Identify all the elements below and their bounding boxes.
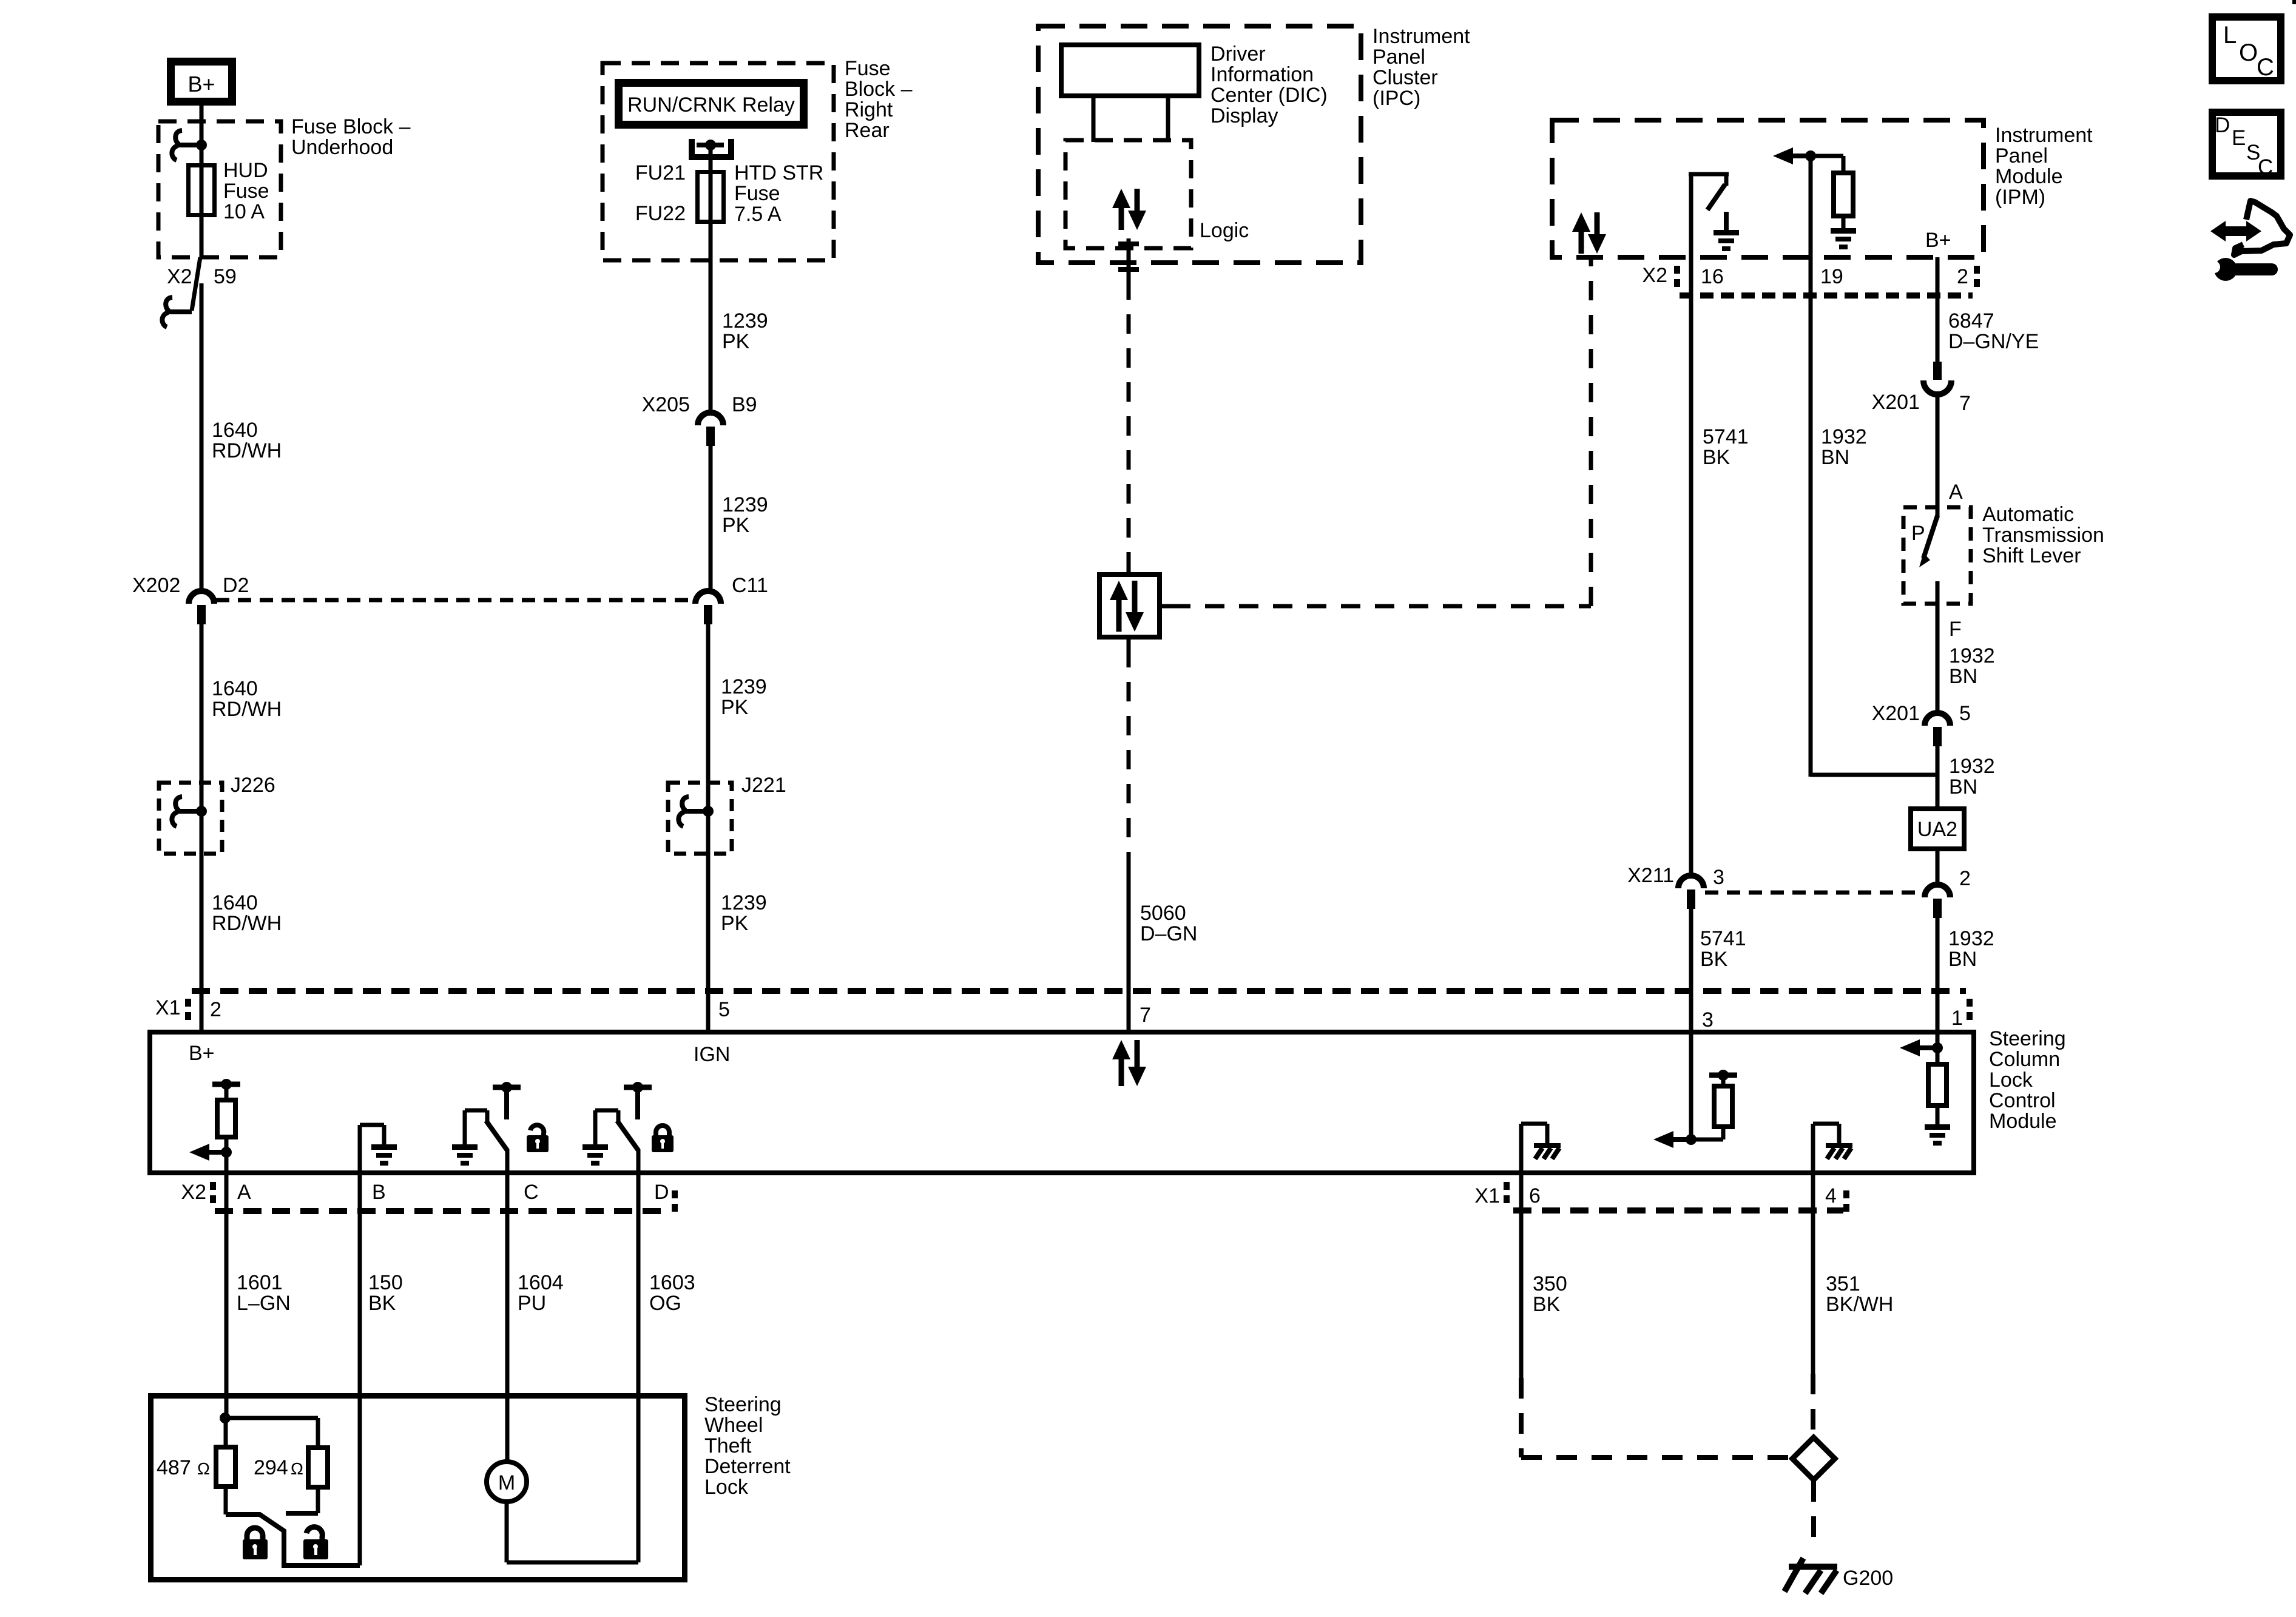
label circuit 350 BK	[1533, 1272, 1567, 1316]
wire 1601 L-GN module to lock	[225, 1172, 229, 1420]
label pin 7	[1140, 1004, 1151, 1027]
wire X201-5 to UA2	[1936, 745, 1940, 809]
svg-text:Rear: Rear	[845, 119, 890, 142]
label 294 ohm	[254, 1456, 303, 1479]
svg-text:PK: PK	[721, 696, 749, 719]
svg-text:P: P	[1911, 522, 1925, 545]
motor M	[487, 1462, 527, 1502]
svg-text:5741: 5741	[1700, 927, 1746, 950]
separator dots after IPM pin 2	[1974, 266, 1980, 287]
module X1 connector dashed row	[192, 988, 1966, 994]
svg-text:PK: PK	[722, 330, 750, 353]
lock switch open contact	[286, 1511, 318, 1516]
closed padlock icon at pin D switch	[652, 1126, 674, 1152]
separator dots X1 left	[185, 999, 191, 1020]
svg-text:19: 19	[1820, 265, 1843, 288]
resistor 294 ohm	[308, 1448, 328, 1513]
label FU21 FU22	[635, 161, 686, 225]
option code UA2 box	[1911, 809, 1964, 849]
tick bar at IPC box exit	[1118, 267, 1139, 272]
wire 1932 BN horizontal to X201-5 output	[1811, 772, 1937, 777]
jump icon wrench	[2207, 258, 2278, 281]
wire 5741 BK IPM-16 to X211	[1689, 257, 1693, 873]
svg-text:1239: 1239	[722, 309, 768, 333]
label J221	[741, 774, 786, 797]
wire motor to 1603 OG	[507, 1502, 638, 1562]
label terminal A	[1949, 481, 1963, 504]
DIC display box	[1061, 45, 1199, 96]
svg-text:Module: Module	[1995, 165, 2063, 188]
svg-text:C: C	[2258, 155, 2273, 179]
junction dot lock resistors	[220, 1413, 231, 1423]
svg-text:X205: X205	[642, 393, 690, 416]
shift lever switch stub	[1936, 507, 1940, 518]
tick bar at logic box exit	[1118, 241, 1139, 246]
svg-text:E: E	[2232, 126, 2246, 150]
svg-text:59: 59	[214, 265, 237, 288]
svg-text:X202: X202	[132, 574, 180, 597]
wire junction to IPM resistor	[1811, 156, 1843, 173]
page corner mark	[2292, 0, 2296, 4]
label Logic	[1200, 219, 1249, 242]
lock switch blade and common	[226, 1514, 360, 1565]
svg-text:1932: 1932	[1948, 927, 1994, 950]
label X2 59	[167, 265, 237, 288]
svg-text:BN: BN	[1949, 775, 1977, 798]
svg-text:Lock: Lock	[704, 1476, 749, 1499]
svg-text:Instrument: Instrument	[1373, 25, 1470, 48]
svg-text:6: 6	[1529, 1184, 1541, 1207]
svg-text:BN: BN	[1948, 948, 1977, 971]
svg-text:1239: 1239	[721, 891, 767, 914]
junction dot pin 1	[1932, 1042, 1943, 1053]
switch blade in IPM	[1707, 184, 1725, 210]
label circuit 1604 PU	[518, 1271, 564, 1315]
wire junction to 294 resistor	[225, 1418, 318, 1448]
label Driver Information Center DIC Display	[1210, 42, 1328, 127]
shift lever lower stub	[1936, 581, 1940, 604]
svg-text:J221: J221	[741, 774, 786, 797]
jump icon hand outline	[2234, 201, 2290, 255]
svg-text:7: 7	[1959, 392, 1971, 415]
fuse HTD STR Fuse 7.5 A	[698, 172, 724, 222]
stub below logic box	[1127, 238, 1131, 280]
svg-text:M: M	[498, 1471, 515, 1494]
label Instrument Panel Module IPM	[1995, 124, 2093, 209]
svg-text:HUD: HUD	[223, 159, 268, 182]
label X201 7	[1872, 391, 1971, 415]
arrow to other circuits pin 1	[1900, 1039, 1937, 1056]
label 487 ohm	[157, 1456, 210, 1479]
svg-text:Steering: Steering	[1989, 1027, 2066, 1050]
svg-text:Control: Control	[1989, 1089, 2056, 1112]
svg-text:1932: 1932	[1949, 755, 1995, 778]
in-line connector X205 pin B9	[698, 413, 723, 446]
label HTD STR Fuse 7.5 A	[734, 161, 823, 226]
module pin D switch blade	[617, 1121, 638, 1150]
svg-text:D2: D2	[223, 574, 249, 597]
svg-text:IGN: IGN	[694, 1043, 730, 1066]
svg-text:1: 1	[1951, 1007, 1963, 1030]
svg-text:3: 3	[1702, 1008, 1714, 1031]
earth ground module pin 1	[1925, 1124, 1950, 1146]
svg-text:1601: 1601	[237, 1271, 283, 1294]
connector X2 pin 59 jog	[192, 257, 200, 311]
svg-text:Underhood: Underhood	[291, 136, 393, 159]
svg-text:3: 3	[1713, 866, 1724, 889]
label connector pin 2	[1959, 867, 1971, 890]
dashed serial data line below gateway	[1127, 648, 1131, 862]
wire IPM pin 16 internal	[1689, 174, 1729, 257]
label pin 3	[1702, 1008, 1714, 1031]
label Fuse Block Underhood	[291, 115, 411, 159]
svg-text:Fuse: Fuse	[734, 182, 780, 205]
module pin 3 internal resistor	[1691, 1075, 1732, 1139]
wire 1640 RD/WH X2-59 to X202	[200, 283, 204, 589]
wire 150 BK module to lock	[358, 1172, 362, 1565]
svg-text:G200: G200	[1843, 1567, 1893, 1590]
bus tap hook at HUD fuse feed	[172, 130, 201, 160]
wire 1932 BN to module pin X1-1	[1936, 917, 1940, 1034]
instrument panel module IPM dashed box	[1552, 120, 1984, 257]
dashed wire 351 BK/WH to splice	[1811, 1374, 1815, 1434]
label HUD Fuse 10 A	[223, 159, 269, 223]
dashed connector jumper D2 to C11	[216, 598, 695, 603]
label circuit 5060 D-GN	[1140, 902, 1197, 945]
power feed B+ box (battery positive)	[171, 62, 232, 102]
svg-text:BN: BN	[1949, 665, 1977, 688]
module pin C switch frame	[465, 1110, 487, 1144]
wire 1604 PU module to motor	[505, 1172, 510, 1462]
label circuit 1932 BN	[1948, 927, 1994, 971]
chassis ground module pin 4	[1826, 1143, 1852, 1159]
fuse block right rear dashed box	[603, 63, 834, 260]
serial data arrows in logic box	[1112, 189, 1146, 230]
svg-text:Logic: Logic	[1200, 219, 1249, 242]
svg-text:1239: 1239	[722, 493, 768, 516]
svg-text:1640: 1640	[212, 419, 258, 442]
wire 1932 BN IPM-19 down	[1809, 257, 1813, 772]
module pin A internal resistor	[217, 1084, 235, 1152]
wire DIC display left leg	[1092, 98, 1096, 142]
svg-text:Instrument: Instrument	[1995, 124, 2093, 147]
logic dashed box	[1065, 140, 1191, 248]
in-line connector C11	[695, 591, 721, 624]
svg-text:RD/WH: RD/WH	[212, 912, 282, 935]
svg-text:X2: X2	[167, 265, 192, 288]
svg-text:2: 2	[1959, 867, 1971, 890]
arrow to other circuits IPM	[1773, 147, 1811, 164]
splice J221 tap hook	[678, 797, 708, 826]
wire module pin D	[636, 1149, 641, 1172]
svg-text:Right: Right	[845, 98, 893, 121]
label circuit 1640 RD/WH	[212, 677, 282, 721]
svg-text:5: 5	[1959, 702, 1971, 725]
svg-text:2: 2	[210, 998, 221, 1021]
svg-text:OG: OG	[649, 1292, 681, 1315]
serial data arrows in module	[1112, 1040, 1146, 1086]
module pin 3 resistor T-cap	[1709, 1073, 1737, 1078]
junction dot at HUD fuse feed	[196, 140, 207, 150]
earth ground module pin C	[452, 1144, 478, 1166]
dashed wire 350 BK to splice	[1521, 1378, 1789, 1457]
junction dot J221	[703, 806, 714, 817]
label C11	[732, 574, 768, 597]
svg-text:Panel: Panel	[1995, 144, 2048, 167]
wire 6847 D-GN/YE X201 to shift lever	[1936, 391, 1940, 507]
svg-text:X201: X201	[1872, 702, 1920, 725]
label J226	[231, 774, 275, 797]
in-line connector X211 pin 3	[1678, 876, 1704, 909]
separator dots IPM X2	[1674, 266, 1680, 287]
wire 1239 PK X205 to C11	[709, 446, 713, 589]
label X1 and pin 2	[155, 996, 221, 1021]
wire IPM pin 2 B+	[1936, 257, 1940, 362]
svg-text:Display: Display	[1210, 104, 1278, 127]
module pin A internal resistor T-cap	[212, 1082, 240, 1087]
svg-text:X211: X211	[1627, 864, 1674, 887]
resistor in IPM	[1834, 173, 1853, 216]
separator dots X2 bottom right	[672, 1190, 678, 1212]
svg-text:7: 7	[1140, 1004, 1151, 1027]
in-line connector X201 pin 7	[1923, 362, 1951, 394]
svg-text:351: 351	[1826, 1272, 1860, 1295]
junction dot pin A	[221, 1147, 232, 1158]
svg-text:D: D	[2215, 113, 2230, 137]
svg-text:RUN/CRNK Relay: RUN/CRNK Relay	[627, 93, 795, 116]
svg-text:F: F	[1949, 618, 1962, 641]
label circuit 6847 D-GN/YE	[1948, 309, 2039, 353]
svg-text:5060: 5060	[1140, 902, 1186, 925]
label Fuse Block Right Rear	[845, 57, 913, 142]
svg-text:O: O	[2239, 39, 2258, 66]
svg-text:BK: BK	[1533, 1293, 1561, 1316]
in-line connector X201 pin 5	[1925, 713, 1950, 746]
svg-text:X2: X2	[1642, 264, 1667, 287]
wire through J221	[706, 783, 711, 854]
label circuit 1239 PK	[722, 309, 768, 353]
wire 1640 RD/WH X202 to J226	[200, 624, 204, 783]
label X211 3	[1627, 864, 1724, 889]
junction dot pin 3 cap	[1718, 1070, 1729, 1081]
junction dot pin C contact	[501, 1082, 512, 1093]
jump icon double arrow	[2210, 221, 2261, 241]
label Steering Wheel Theft Deterrent Lock	[704, 1393, 791, 1499]
automatic transmission shift lever dashed box	[1903, 507, 1971, 604]
svg-text:1640: 1640	[212, 677, 258, 700]
chassis ground module pin 6	[1534, 1143, 1561, 1159]
label B+ inside IPM	[1925, 229, 1951, 252]
label pin 1	[1951, 1007, 1963, 1030]
svg-text:PK: PK	[722, 514, 750, 537]
ground G200 symbol	[1784, 1558, 1837, 1593]
svg-text:Steering: Steering	[704, 1393, 782, 1416]
splice diamond	[1792, 1437, 1835, 1480]
shift lever switch blade	[1919, 516, 1937, 567]
svg-text:5741: 5741	[1703, 425, 1749, 448]
fuse F-UH HUD Fuse 10 A	[189, 165, 215, 215]
svg-text:PU: PU	[518, 1292, 546, 1315]
dashed serial data line to gateway symbol	[1127, 280, 1131, 572]
svg-text:Column: Column	[1989, 1048, 2060, 1071]
wire B+ box to HUD fuse	[200, 106, 204, 165]
svg-text:(IPC): (IPC)	[1373, 87, 1420, 110]
bus tap hook at X2-59	[162, 297, 192, 327]
svg-text:1640: 1640	[212, 891, 258, 914]
module pin D fixed contact	[624, 1087, 652, 1119]
svg-text:1603: 1603	[649, 1271, 695, 1294]
wire 1239 PK fuse to X205	[709, 222, 713, 413]
IPM connector face dotted line	[1680, 292, 1973, 299]
svg-text:X2: X2	[181, 1181, 206, 1204]
svg-text:Panel: Panel	[1373, 46, 1425, 69]
junction dot pin A cap	[221, 1079, 232, 1090]
svg-text:C: C	[524, 1181, 539, 1204]
label circuit 1603 OG	[649, 1271, 695, 1315]
svg-text:4: 4	[1825, 1184, 1837, 1207]
relay output T-bar	[697, 143, 724, 147]
dashed connector jumper X211-3 to UA2 line	[1705, 891, 1923, 895]
svg-text:Block –: Block –	[845, 78, 913, 101]
svg-text:Fuse: Fuse	[223, 180, 269, 203]
in-line connector X202 pin D2	[189, 591, 214, 624]
splice J226 tap hook	[172, 797, 201, 826]
label circuit 5741 BK	[1703, 425, 1749, 469]
svg-text:Lock: Lock	[1989, 1068, 2033, 1092]
arrow to other circuits pin 3	[1653, 1131, 1691, 1148]
wire relay to HTD STR fuse	[709, 145, 713, 172]
svg-text:D–GN/YE: D–GN/YE	[1948, 330, 2039, 353]
svg-text:J226: J226	[231, 774, 275, 797]
svg-text:A: A	[1949, 481, 1963, 504]
open padlock icon at pin C switch	[527, 1125, 549, 1152]
svg-text:X1: X1	[155, 996, 181, 1019]
svg-text:350: 350	[1533, 1272, 1567, 1295]
svg-text:PK: PK	[721, 912, 749, 935]
svg-text:HTD STR: HTD STR	[734, 161, 823, 184]
IPM pin row labels X2 16 19 2	[1642, 264, 1968, 288]
svg-text:B+: B+	[189, 1042, 215, 1065]
svg-text:Wheel: Wheel	[704, 1414, 763, 1437]
module X2 bottom connector dashed row	[215, 1208, 670, 1214]
separator dots X1 right	[1967, 999, 1973, 1020]
svg-text:1932: 1932	[1821, 425, 1867, 448]
wire module pin C	[505, 1149, 510, 1172]
svg-text:2: 2	[1957, 265, 1968, 288]
steering wheel theft deterrent lock box	[151, 1396, 685, 1580]
serial data gateway box	[1099, 575, 1160, 637]
label B+ in module	[189, 1042, 215, 1065]
gateway bottom stub	[1127, 640, 1131, 648]
separator dots X1 bottom left	[1504, 1182, 1510, 1203]
svg-text:Information: Information	[1210, 63, 1314, 86]
gateway top stub	[1127, 564, 1131, 572]
svg-text:5: 5	[718, 998, 730, 1021]
LOC reference box	[2212, 17, 2281, 81]
wire 1603 OG module to motor	[636, 1172, 641, 1562]
svg-text:Ω: Ω	[291, 1459, 303, 1478]
splice J221 dashed box	[668, 783, 732, 854]
svg-text:L: L	[2223, 22, 2237, 49]
svg-text:1932: 1932	[1949, 644, 1995, 667]
open padlock icon in lock box	[303, 1527, 328, 1559]
wire module pin 1 internal	[1936, 1034, 1940, 1048]
svg-text:BK: BK	[1703, 446, 1730, 469]
module pin B internal ground path	[360, 1125, 384, 1172]
label circuit 150 BK	[368, 1271, 403, 1315]
label IGN in module	[694, 1043, 730, 1066]
label circuit 1239 PK	[721, 675, 767, 719]
wire 1239 PK C11 to J221	[706, 624, 711, 783]
module X1 bottom connector dashed row	[1513, 1207, 1843, 1214]
label Instrument Panel Cluster IPC	[1373, 25, 1470, 110]
svg-text:BN: BN	[1821, 446, 1849, 469]
svg-text:FU21: FU21	[635, 161, 686, 184]
junction dot pin 3	[1686, 1134, 1697, 1145]
svg-text:A: A	[237, 1181, 251, 1204]
wire 351 BK/WH module pin 4	[1811, 1172, 1815, 1374]
wire 1932 BN shift lever to X201-5	[1936, 604, 1940, 714]
arrow to other circuits pin A	[189, 1144, 227, 1161]
wire DIC display right leg	[1166, 98, 1170, 142]
wire 5741 BK X211 to module pin X1-3	[1689, 909, 1693, 1034]
svg-text:BK/WH: BK/WH	[1826, 1293, 1893, 1316]
label X202 D2	[132, 574, 249, 597]
earth ground in IPM at switch	[1714, 230, 1739, 251]
svg-text:B: B	[372, 1181, 386, 1204]
serial data arrows in IPM	[1572, 212, 1606, 254]
wire module pin A	[225, 1152, 229, 1172]
module pin 4 internal ground path	[1813, 1124, 1839, 1172]
wire HUD fuse to connector X2-59	[200, 215, 204, 257]
earth ground module pin B	[371, 1144, 397, 1166]
label circuit 1239 PK	[722, 493, 768, 537]
wire 350 BK module pin 6	[1519, 1172, 1524, 1378]
label X2 and pins A B C D	[181, 1181, 669, 1204]
wire 1239 PK J221 to module pin X1-5	[706, 854, 711, 1034]
svg-text:L–GN: L–GN	[237, 1292, 291, 1315]
label X201 5	[1872, 702, 1971, 725]
label terminal F	[1949, 618, 1962, 641]
svg-text:Module: Module	[1989, 1110, 2057, 1133]
label circuit 1601 L-GN	[237, 1271, 291, 1315]
wire IPM pin 19	[1809, 156, 1813, 257]
svg-text:1239: 1239	[721, 675, 767, 698]
label circuit 1640 RD/WH	[212, 891, 282, 935]
label X205 B9	[642, 393, 757, 416]
label X1 and pins 6 4	[1474, 1184, 1837, 1207]
svg-text:C: C	[2257, 54, 2274, 81]
switch fixed contact stem in IPM	[1724, 212, 1729, 230]
svg-text:6847: 6847	[1948, 309, 1994, 333]
svg-text:D: D	[654, 1181, 669, 1204]
svg-text:RD/WH: RD/WH	[212, 698, 282, 721]
svg-text:C11: C11	[732, 574, 768, 597]
instrument panel cluster IPC dashed box	[1038, 26, 1361, 263]
resistor 487 ohm	[216, 1418, 235, 1514]
svg-text:7.5 A: 7.5 A	[734, 203, 782, 226]
junction dot J226	[196, 806, 207, 817]
svg-text:B+: B+	[187, 72, 215, 96]
svg-text:487: 487	[157, 1456, 191, 1479]
label Steering Column Lock Control Module	[1989, 1027, 2066, 1133]
wire 1640 RD/WH J226 to module pin X1-2	[200, 854, 204, 1034]
svg-text:Driver: Driver	[1210, 42, 1266, 66]
module pin 1 internal resistor	[1928, 1048, 1947, 1124]
label circuit 1932 BN	[1949, 644, 1995, 688]
svg-text:16: 16	[1701, 265, 1724, 288]
gateway right stub	[1162, 604, 1171, 609]
